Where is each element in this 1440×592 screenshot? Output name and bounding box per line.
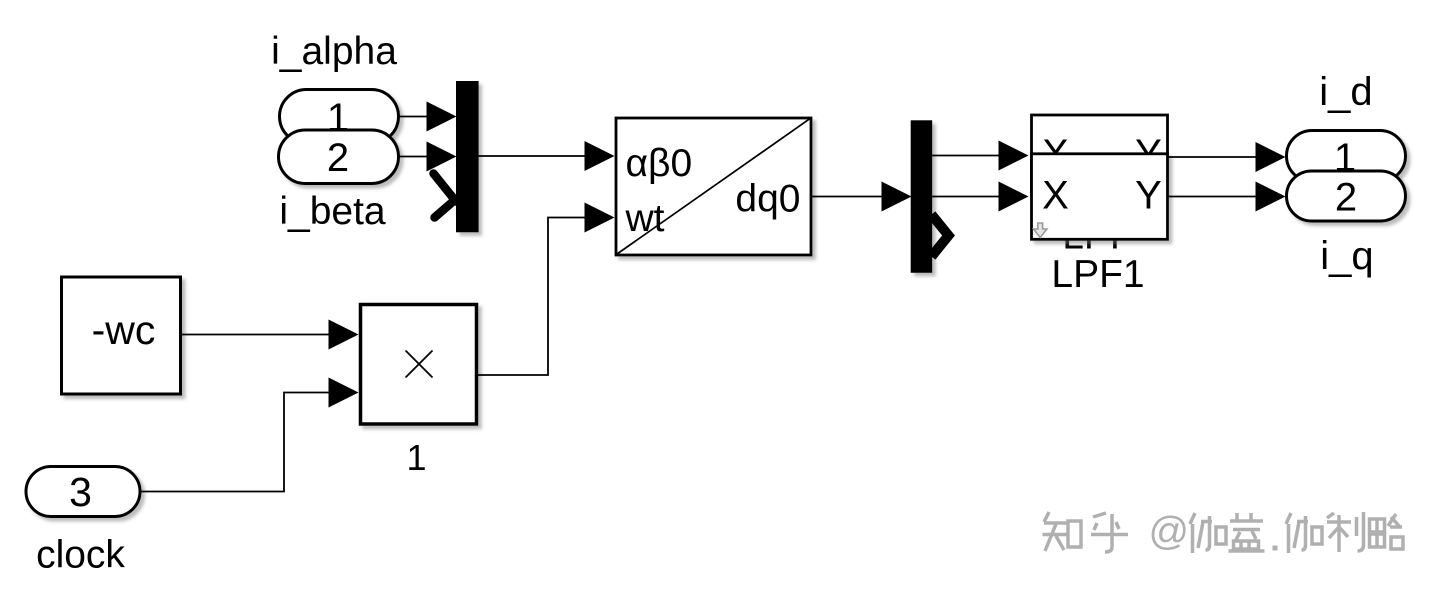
arrow into product port2 bbox=[329, 378, 359, 408]
wire inport2 to mux bbox=[397, 156, 428, 158]
multiply symbol bbox=[406, 351, 433, 378]
svg-text:X: X bbox=[1042, 174, 1069, 218]
subsystem LPF (back block, partially hidden) bbox=[1032, 115, 1168, 195]
wire -wc to product bbox=[181, 334, 330, 336]
inport 1 (i_alpha) bbox=[280, 90, 399, 144]
annotation arrow icon (gray) bbox=[1034, 223, 1047, 238]
transform block alpha-beta-0 to dq0 bbox=[616, 118, 811, 255]
wire clock to product (right, up, right) bbox=[141, 393, 330, 492]
arrow into outport 2 bbox=[1256, 182, 1286, 212]
wire LPF back Y to outport 1 bbox=[1168, 156, 1258, 158]
arrow into mux port2 bbox=[427, 142, 457, 172]
svg-text:Y: Y bbox=[1135, 174, 1162, 218]
constant block -wc bbox=[62, 277, 181, 394]
svg-text:αβ0: αβ0 bbox=[626, 142, 693, 185]
unconnected mark at mux port3 bbox=[434, 174, 457, 218]
svg-text:-wc: -wc bbox=[92, 307, 156, 353]
svg-text:LPF1: LPF1 bbox=[1051, 253, 1144, 296]
arrow into LPF1 X bbox=[999, 182, 1029, 212]
outport 1 (i_d) bbox=[1287, 131, 1406, 182]
乎 bbox=[1091, 513, 1128, 552]
略 bbox=[1370, 519, 1385, 532]
product block × bbox=[361, 305, 477, 425]
diagonal of transform block bbox=[617, 119, 810, 254]
wire LPF1 Y to outport 2 bbox=[1168, 196, 1258, 198]
inport 2 (i_beta) bbox=[279, 130, 399, 184]
subsystem LPF1 (front block) bbox=[1032, 154, 1168, 240]
svg-text:dq0: dq0 bbox=[735, 178, 800, 221]
svg-text:i_beta: i_beta bbox=[279, 190, 386, 233]
svg-text:2: 2 bbox=[327, 136, 349, 180]
知 bbox=[1043, 512, 1069, 551]
svg-text:1: 1 bbox=[406, 437, 426, 478]
wire demux out1 to LPF back X bbox=[932, 155, 1000, 157]
wire product to transform wt (right, up, right) bbox=[478, 218, 587, 376]
wire inport1 to mux bbox=[397, 116, 428, 118]
arrow into LPF back X bbox=[999, 141, 1029, 171]
arrow into transform wt input bbox=[585, 203, 615, 233]
demux Demux bbox=[911, 120, 933, 272]
arrow into transform alpha-beta input bbox=[585, 141, 615, 171]
svg-text:@: @ bbox=[1149, 510, 1190, 554]
svg-text:3: 3 bbox=[69, 469, 92, 515]
mux Mux bbox=[456, 81, 479, 232]
watermark 知乎 @伽蓝.伽利略 bbox=[1043, 512, 1129, 552]
unconnected chevron at demux port3 bbox=[932, 215, 949, 257]
svg-text:wt: wt bbox=[625, 197, 665, 240]
蓝 bbox=[1230, 513, 1263, 540]
arrow into mux port1 bbox=[427, 102, 457, 132]
arrow into outport 1 bbox=[1256, 142, 1286, 172]
wire mux to transform bbox=[479, 155, 586, 157]
wire transform to demux bbox=[811, 196, 883, 198]
伽 bbox=[1286, 513, 1308, 553]
伽 bbox=[1190, 513, 1212, 553]
svg-text:i_alpha: i_alpha bbox=[271, 30, 397, 73]
arrow into demux bbox=[882, 182, 912, 212]
svg-text:clock: clock bbox=[36, 534, 125, 577]
inport 3 (clock) bbox=[26, 467, 140, 517]
arrow into product port1 bbox=[329, 320, 359, 350]
outport 2 (i_q) bbox=[1287, 171, 1406, 221]
svg-text:i_q: i_q bbox=[1320, 234, 1373, 278]
svg-text:i_d: i_d bbox=[1319, 70, 1372, 114]
. bbox=[1273, 546, 1278, 551]
svg-text:2: 2 bbox=[1335, 176, 1357, 220]
wire demux out2 to LPF1 X bbox=[932, 196, 1000, 198]
利 bbox=[1327, 512, 1364, 552]
